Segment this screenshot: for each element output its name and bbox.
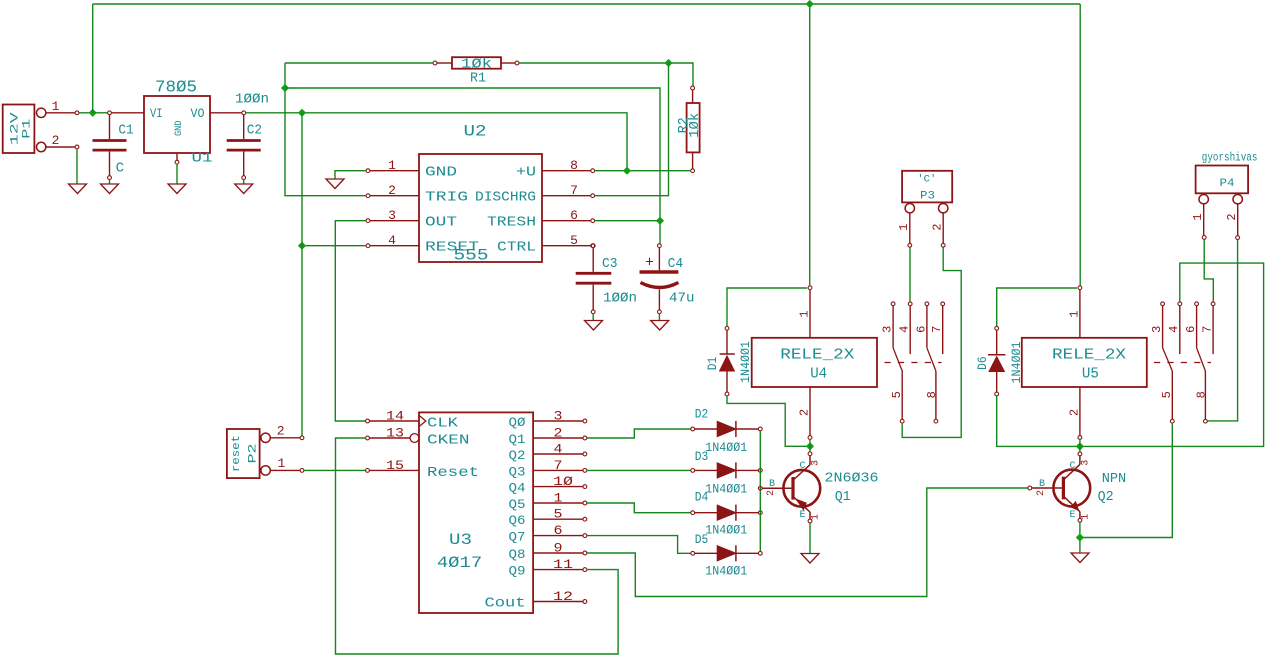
svg-text:15: 15 — [386, 458, 404, 473]
svg-text:CKEN: CKEN — [427, 433, 470, 449]
wire TRIG to TRESH link — [285, 88, 660, 219]
svg-text:Q1: Q1 — [835, 489, 851, 505]
svg-text:1N4ØØ1: 1N4ØØ1 — [738, 341, 753, 383]
ground C4 — [651, 321, 669, 331]
svg-text:E: E — [799, 510, 805, 521]
P1 pin 2 — [46, 133, 79, 149]
svg-text:1: 1 — [897, 224, 911, 231]
U3 pin 1 Q5 — [509, 491, 587, 513]
diode D3 — [691, 449, 762, 497]
svg-text:CTRL: CTRL — [497, 240, 536, 256]
node +12V junction — [89, 109, 97, 117]
Q2 ref — [1098, 489, 1114, 505]
wire Q3 to D3 — [587, 469, 691, 471]
svg-text:1Øk: 1Øk — [688, 113, 703, 138]
wire diode cathode rail — [759, 431, 761, 552]
wire C2 to ground — [243, 180, 245, 184]
svg-text:5: 5 — [1160, 391, 1174, 398]
ground C1 — [101, 184, 119, 194]
wire C3 to ground — [592, 314, 594, 320]
svg-text:8: 8 — [1194, 391, 1208, 398]
U1 VI pin — [111, 112, 144, 114]
U2 pin 3 OUT — [366, 208, 457, 231]
U2 pin 2 TRIG — [366, 183, 468, 206]
svg-text:VO: VO — [191, 107, 205, 121]
wire P4.1 to contact 7 — [1204, 239, 1213, 301]
svg-text:D5: D5 — [695, 532, 709, 547]
wire Q1 emitter to ground — [809, 523, 811, 553]
svg-text:4: 4 — [554, 442, 563, 457]
U5 coil pin 1 — [1067, 286, 1081, 338]
svg-text:5: 5 — [570, 233, 578, 248]
U2 pin 4 RESET — [366, 233, 479, 256]
svg-text:4: 4 — [1167, 326, 1181, 333]
svg-text:7: 7 — [930, 326, 944, 333]
svg-text:P4: P4 — [1220, 178, 1235, 190]
svg-text:1Ø: 1Ø — [553, 474, 573, 489]
svg-text:1N4ØØ1: 1N4ØØ1 — [1009, 341, 1024, 383]
wire P3.1 to contact 4 — [909, 247, 911, 302]
Q1 value 2N6036 — [825, 471, 879, 487]
wire D6 top to coil 1 — [997, 288, 1077, 326]
wire RESET to x302 rail — [304, 245, 366, 247]
svg-text:2: 2 — [798, 409, 812, 416]
U3 pin 6 Q7 — [509, 523, 587, 545]
ic U2 body — [419, 123, 542, 265]
U3 pin 13 CKEN — [366, 426, 470, 449]
wire TRESH to C4 — [659, 223, 661, 244]
svg-text:Q2: Q2 — [509, 448, 526, 463]
svg-text:47u: 47u — [669, 291, 695, 307]
svg-text:TRIG: TRIG — [425, 190, 468, 206]
svg-text:1ØØn: 1ØØn — [235, 92, 269, 108]
U4 coil pin 2 — [798, 387, 812, 439]
wire +U row — [595, 170, 691, 172]
svg-text:4: 4 — [898, 326, 912, 333]
svg-text:3: 3 — [811, 460, 822, 466]
ground C3 — [585, 321, 603, 331]
capacitor C1 — [93, 111, 134, 180]
svg-text:6: 6 — [914, 326, 928, 333]
connector P3 — [902, 171, 952, 213]
node top rail U4 — [806, 0, 814, 8]
svg-text:C: C — [1069, 461, 1075, 472]
svg-text:1: 1 — [1080, 514, 1091, 520]
svg-text:12V: 12V — [9, 112, 21, 146]
svg-text:Q2: Q2 — [1098, 489, 1114, 505]
svg-text:3: 3 — [1080, 460, 1091, 466]
U2 pin 6 TRESH — [487, 208, 595, 231]
svg-text:1ØØn: 1ØØn — [603, 291, 637, 307]
svg-text:P3: P3 — [920, 191, 935, 203]
svg-text:U4: U4 — [810, 366, 827, 383]
svg-text:C3: C3 — [602, 256, 618, 272]
ground Q2 — [1071, 553, 1089, 563]
U3 pin 4 Q2 — [509, 442, 587, 464]
svg-text:3: 3 — [1150, 326, 1164, 333]
wire TRESH to pin — [595, 220, 659, 222]
svg-text:1: 1 — [554, 491, 563, 506]
node Q2 emitter junction — [1076, 533, 1084, 541]
svg-text:4: 4 — [388, 233, 396, 248]
svg-text:C2: C2 — [247, 123, 262, 139]
U2 pin 1 GND — [366, 158, 457, 181]
svg-text:2N6Ø36: 2N6Ø36 — [825, 471, 879, 487]
svg-text:4Ø17: 4Ø17 — [437, 554, 482, 572]
svg-text:6: 6 — [554, 523, 563, 538]
connector P2 — [227, 429, 270, 478]
svg-text:D6: D6 — [975, 356, 990, 370]
wire P1.1 to +12V rail — [79, 112, 93, 114]
wire P3.2 to contact 5 — [902, 247, 961, 437]
node U4 coil2 junction — [806, 442, 814, 450]
svg-text:+U: +U — [516, 165, 536, 181]
node Q1 base pin — [758, 486, 762, 490]
svg-text:1: 1 — [1191, 213, 1205, 220]
node R1 right junction — [664, 59, 672, 67]
svg-text:1: 1 — [52, 99, 60, 114]
svg-text:3: 3 — [881, 326, 895, 333]
svg-text:GND: GND — [174, 121, 185, 137]
svg-text:C: C — [799, 461, 805, 472]
regulator U1 body — [144, 79, 213, 167]
wire D1 top to coil 1 — [727, 288, 807, 326]
svg-text:C: C — [116, 161, 124, 177]
relay U4 contacts — [881, 302, 945, 423]
svg-text:8: 8 — [570, 158, 578, 173]
U5 coil pin 2 — [1067, 387, 1081, 439]
wire R1 left — [285, 62, 433, 64]
svg-text:3: 3 — [388, 208, 396, 223]
svg-text:12: 12 — [553, 589, 573, 604]
svg-text:7: 7 — [1201, 326, 1215, 333]
U2 pin 7 DISCHRG — [475, 183, 595, 206]
U3 pin 10 Q4 — [509, 474, 587, 496]
svg-text:2: 2 — [766, 490, 777, 496]
P3 pin 1 — [897, 213, 911, 247]
svg-text:RELE_2X: RELE_2X — [1052, 347, 1126, 364]
connector P1 — [3, 105, 46, 154]
wire P1.2 to ground — [76, 149, 78, 184]
node TRESH junction — [656, 217, 664, 225]
U4 coil pin 1 — [798, 286, 812, 338]
svg-text:QØ: QØ — [509, 415, 526, 430]
ground Q1 — [801, 554, 819, 564]
wire Q7 to D5 — [587, 536, 691, 554]
wire D6 bottom to coil 2 rail — [997, 263, 1264, 446]
wire rail to U4 coil — [809, 4, 811, 286]
svg-text:7: 7 — [554, 458, 563, 473]
svg-text:Q3: Q3 — [509, 464, 526, 479]
ground U2 — [326, 179, 344, 189]
svg-text:Q5: Q5 — [509, 497, 526, 512]
wire +12V rail riser — [92, 4, 94, 113]
P2 pin 1 — [270, 456, 304, 472]
svg-text:13: 13 — [386, 426, 404, 441]
svg-text:P1: P1 — [22, 118, 34, 139]
svg-text:D1: D1 — [705, 357, 720, 371]
svg-text:CLK: CLK — [427, 416, 459, 432]
svg-text:14: 14 — [386, 409, 404, 424]
svg-text:1N4ØØ1: 1N4ØØ1 — [705, 440, 747, 455]
P4 pin 1 — [1191, 204, 1206, 240]
U3 pin 14 CLK — [366, 409, 459, 432]
wire C1 to ground — [109, 180, 111, 184]
wire Q5 to D4 — [587, 503, 691, 513]
resistor R1 — [433, 57, 519, 86]
U2 pin 8 +U — [516, 158, 595, 181]
svg-text:VI: VI — [150, 107, 163, 121]
svg-text:NPN: NPN — [1102, 471, 1127, 487]
svg-text:6: 6 — [570, 208, 578, 223]
svg-text:2: 2 — [388, 183, 396, 198]
U2 pin 5 CTRL — [497, 233, 595, 256]
svg-text:P2: P2 — [247, 444, 259, 464]
Q1 ref — [835, 489, 851, 505]
connector P4 — [1196, 151, 1258, 204]
Q1 pin labels — [766, 460, 822, 521]
svg-text:'C': 'C' — [917, 174, 936, 186]
svg-text:6: 6 — [1184, 326, 1198, 333]
svg-text:Q4: Q4 — [509, 481, 526, 496]
svg-text:Q6: Q6 — [509, 513, 526, 528]
relay U5 contacts — [1150, 302, 1215, 423]
wire P2.1 to 4017 Reset — [304, 469, 366, 471]
diode D4 — [691, 490, 762, 538]
svg-text:11: 11 — [553, 557, 573, 572]
diode D2 — [691, 407, 762, 455]
wire rail to U5 coil — [1079, 4, 1081, 286]
svg-text:Q1: Q1 — [509, 432, 526, 447]
Q2 value NPN — [1102, 471, 1127, 487]
P2 pin 2 — [270, 424, 304, 440]
U1 GND pin — [175, 153, 179, 164]
svg-text:1: 1 — [277, 456, 285, 471]
wire U5 coil2 to collector — [1079, 439, 1081, 452]
svg-text:1N4ØØ1: 1N4ØØ1 — [705, 563, 747, 578]
relay U5 body — [1022, 338, 1147, 387]
wire R1 right — [519, 63, 693, 86]
wire U2 GND to ground — [335, 171, 366, 179]
svg-text:2: 2 — [52, 133, 60, 148]
wire contact 5 to Q2 emitter — [1082, 423, 1173, 537]
svg-text:DISCHRG: DISCHRG — [475, 190, 536, 206]
svg-text:GND: GND — [425, 165, 457, 181]
U3 pin 9 Q8 — [509, 541, 587, 563]
svg-text:78Ø5: 78Ø5 — [155, 79, 197, 98]
U3 pin 2 Q1 — [509, 426, 587, 448]
svg-text:B: B — [1039, 479, 1045, 490]
svg-text:Reset: Reset — [427, 465, 479, 481]
svg-text:B: B — [769, 479, 775, 490]
ground P1 — [69, 184, 87, 194]
svg-text:Q8: Q8 — [509, 547, 526, 562]
wire OUT down to CLK — [335, 221, 366, 421]
capacitor C2 — [227, 92, 269, 180]
svg-text:D3: D3 — [695, 449, 709, 464]
svg-text:Q9: Q9 — [509, 564, 526, 579]
ic U3 body — [419, 412, 533, 613]
svg-text:RELE_2X: RELE_2X — [780, 347, 854, 364]
U3 pin 5 Q6 — [509, 507, 587, 529]
resistor R2 — [676, 86, 703, 173]
svg-text:1: 1 — [1067, 310, 1081, 317]
svg-text:E: E — [1069, 510, 1075, 521]
wire Q2 emitter down — [1079, 522, 1081, 552]
node +U junction — [623, 167, 631, 175]
wire C4 to ground — [658, 314, 660, 320]
svg-text:U5: U5 — [1082, 366, 1099, 383]
wire TRIG left rail — [285, 63, 366, 196]
svg-text:1N4ØØ1: 1N4ØØ1 — [705, 523, 747, 538]
svg-text:2: 2 — [1225, 213, 1239, 220]
svg-text:U1: U1 — [192, 151, 213, 167]
svg-text:9: 9 — [554, 541, 563, 556]
wire junction to C1 — [95, 112, 108, 114]
U3 pin 3 Q0 — [509, 409, 587, 431]
capacitor C4 — [640, 244, 695, 314]
capacitor C3 — [576, 244, 637, 314]
svg-text:2: 2 — [1036, 490, 1047, 496]
U3 pin 11 Q9 — [509, 557, 587, 579]
node +5V at x302 — [298, 109, 306, 117]
transistor Q2 body — [1028, 452, 1090, 522]
svg-text:RESET: RESET — [425, 240, 479, 256]
svg-text:2: 2 — [931, 224, 945, 231]
svg-text:1N4ØØ1: 1N4ØØ1 — [705, 481, 747, 496]
node TRIG junction — [281, 84, 289, 92]
transistor Q1 body — [762, 452, 820, 523]
wire +5V rail — [246, 113, 627, 169]
svg-text:2: 2 — [554, 426, 563, 441]
U1 VO pin — [210, 112, 242, 114]
ground U1 — [168, 184, 186, 194]
wire x302 rail down — [301, 113, 303, 436]
ground C2 — [235, 184, 253, 194]
svg-text:3: 3 — [554, 409, 563, 424]
wire +12V top rail — [93, 3, 1080, 5]
svg-text:7: 7 — [570, 183, 578, 198]
P4 pin 2 — [1225, 204, 1240, 240]
wire P4.2 to contact 8 — [1207, 240, 1237, 421]
svg-text:5: 5 — [554, 507, 563, 522]
svg-text:U2: U2 — [464, 123, 487, 141]
P3 pin 2 — [931, 213, 946, 247]
svg-text:2: 2 — [1067, 409, 1081, 416]
svg-text:C4: C4 — [668, 256, 684, 272]
U3 pin 12 Cout — [485, 589, 587, 612]
svg-text:5: 5 — [890, 391, 904, 398]
svg-text:D4: D4 — [695, 490, 709, 505]
svg-text:R1: R1 — [470, 71, 486, 87]
svg-text:+: + — [645, 255, 654, 272]
svg-text:1: 1 — [811, 514, 822, 520]
svg-text:reset: reset — [231, 435, 243, 472]
node U5 coil2 junction — [1076, 442, 1084, 450]
diode D1 — [705, 326, 753, 396]
svg-text:U3: U3 — [449, 531, 472, 549]
svg-text:gyorshivas: gyorshivas — [1202, 151, 1258, 165]
wire DISCHRG riser — [595, 63, 669, 196]
diode D5 — [691, 532, 762, 578]
P1 pin 1 — [46, 99, 79, 115]
svg-text:1: 1 — [798, 310, 812, 317]
svg-text:1: 1 — [388, 158, 396, 173]
wire Q8 to Q2 base — [587, 488, 1028, 597]
svg-text:D2: D2 — [695, 407, 709, 422]
svg-text:OUT: OUT — [425, 215, 457, 231]
wire U1 GND to ground — [176, 164, 178, 183]
svg-text:Cout: Cout — [485, 596, 526, 612]
U3 pin 7 Q3 — [509, 458, 587, 480]
Q2 pin labels — [1036, 460, 1091, 521]
relay U4 body — [752, 338, 877, 387]
U3 pin 15 Reset — [366, 458, 479, 481]
wire D1 bottom to coil 2 — [727, 396, 807, 446]
wire Q1 to D2 — [587, 429, 691, 438]
node RESET junction — [298, 242, 306, 250]
svg-text:8: 8 — [925, 391, 939, 398]
svg-text:TRESH: TRESH — [487, 215, 536, 231]
svg-text:Q7: Q7 — [509, 530, 526, 545]
svg-text:C1: C1 — [118, 123, 133, 139]
wire Q9 to CKEN — [336, 438, 619, 654]
svg-text:2: 2 — [277, 424, 285, 439]
wire coil2 junction — [809, 439, 811, 451]
diode D6 — [975, 326, 1024, 396]
